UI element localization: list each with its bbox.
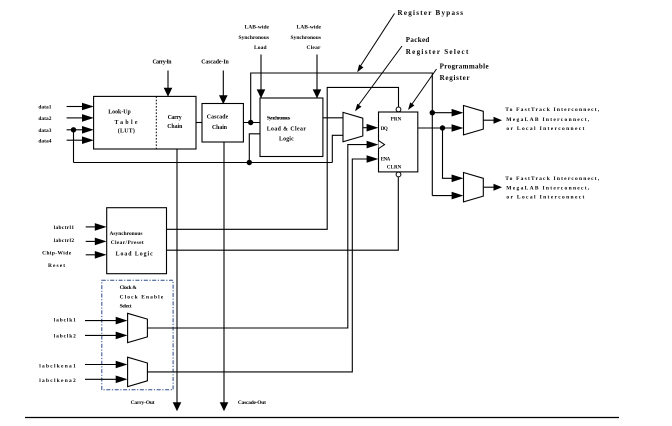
wire LAB-wide synchronous clear <box>316 55 318 92</box>
wire mux2 output <box>483 186 494 188</box>
arrow mux2 output <box>494 184 503 191</box>
svg-text:Chain: Chain <box>167 124 183 130</box>
arrow labclkena2 <box>116 376 128 384</box>
arrow labclk2 <box>116 332 128 340</box>
pointer register bypass <box>360 14 395 68</box>
arrow data2 <box>82 114 94 122</box>
svg-text:data1: data1 <box>38 105 51 111</box>
svg-text:data3: data3 <box>38 128 51 134</box>
svg-text:Clock Enable: Clock Enable <box>120 295 165 301</box>
svg-text:Carry-In: Carry-In <box>153 60 173 66</box>
wire async to PRN <box>167 87 399 229</box>
svg-text:PRN: PRN <box>391 118 402 123</box>
svg-text:Clear/Preset: Clear/Preset <box>111 240 144 246</box>
CLRN bubble <box>396 172 401 177</box>
svg-text:Carry: Carry <box>168 115 182 121</box>
arrow carry-out <box>173 402 182 411</box>
wire chip-wide reset <box>86 254 96 256</box>
wire labctrl2 <box>86 240 96 242</box>
svg-text:MegaLAB Interconnect,: MegaLAB Interconnect, <box>506 185 590 191</box>
wire packed mux to D <box>363 127 367 129</box>
wire bypass to mux2 <box>432 195 452 197</box>
svg-text:Clear: Clear <box>307 45 322 51</box>
wire carry-in <box>167 71 169 91</box>
wire LUT to cascade <box>196 122 202 124</box>
svg-text:Carry-Out: Carry-Out <box>131 400 155 406</box>
block Cascade Chain <box>202 104 243 143</box>
arrow cascade-out <box>220 402 229 411</box>
block Synchronous Load and Clear Logic <box>260 98 323 157</box>
pointer programmable register <box>411 69 437 106</box>
wire labclk1 <box>85 320 116 322</box>
svg-text:or Local Interconnect: or Local Interconnect <box>506 126 584 132</box>
svg-text:ENA: ENA <box>381 158 391 163</box>
clock wedge <box>379 141 385 149</box>
svg-text:LAB-wide: LAB-wide <box>297 25 322 31</box>
node register bypass tap <box>248 120 253 125</box>
wire cascade to sync <box>243 122 260 124</box>
wire data1 <box>67 106 83 108</box>
svg-text:Reset: Reset <box>48 263 65 269</box>
wire data4 <box>67 139 83 141</box>
arrow data4 <box>82 136 94 144</box>
wire labclkena1 <box>85 364 116 366</box>
node feedback to sync <box>247 160 252 165</box>
wire async to CLRN <box>167 177 399 250</box>
node data3 feedback <box>71 127 76 132</box>
arrow chip-wide reset <box>95 251 107 259</box>
arrow labclk1 <box>116 317 128 325</box>
block Clock and Clock Enable Select (dashed) <box>102 280 173 390</box>
arrow carry-in <box>164 88 173 97</box>
wire data2 <box>67 117 83 119</box>
svg-text:Load: Load <box>254 45 267 51</box>
svg-text:CLRN: CLRN <box>387 165 402 170</box>
svg-text:labctrl2: labctrl2 <box>54 238 75 244</box>
arrow into mux1 lower <box>452 124 464 132</box>
svg-text:data2: data2 <box>38 116 51 122</box>
mux clock enable select <box>128 357 148 386</box>
svg-text:Load Logic: Load Logic <box>116 252 154 258</box>
arrow cascade-in <box>219 95 228 104</box>
wire carry-out <box>176 149 178 404</box>
wire clock select to register clock <box>147 145 367 328</box>
svg-text:labclk1: labclk1 <box>54 318 76 324</box>
wire feedback horizontal <box>74 162 333 164</box>
svg-text:(LUT): (LUT) <box>118 127 135 134</box>
wire LAB-wide synchronous load <box>260 55 262 92</box>
mux clock select <box>128 313 148 342</box>
svg-text:Clock &: Clock & <box>120 285 138 291</box>
arrow labclkena1 <box>116 361 128 369</box>
svg-text:Select: Select <box>120 304 132 310</box>
svg-text:DQ: DQ <box>381 127 388 132</box>
svg-text:Cascade: Cascade <box>207 114 229 120</box>
wire feedback to packed mux <box>332 135 343 162</box>
arrow into ENA <box>367 155 379 163</box>
svg-text:data4: data4 <box>38 138 51 144</box>
svg-text:labctrl1: labctrl1 <box>54 225 75 231</box>
svg-text:Table: Table <box>115 120 139 126</box>
arrow labctrl1 <box>95 223 107 231</box>
arrow LAB-wide synchronous clear <box>313 89 322 98</box>
mux output1 <box>464 106 484 135</box>
arrow mux1 output <box>494 117 503 124</box>
pointer packed register select <box>358 46 403 107</box>
PRN bubble <box>396 107 401 112</box>
wire register bypass <box>251 73 433 196</box>
svg-text:MegaLAB Interconnect,: MegaLAB Interconnect, <box>506 117 590 123</box>
bottom rule <box>25 417 619 419</box>
wire labclkena2 <box>85 378 116 380</box>
arrow into mux2 upper <box>452 175 464 183</box>
svg-text:Cascade-Out: Cascade-Out <box>238 400 266 406</box>
svg-text:Load & Clear: Load & Clear <box>267 127 307 133</box>
svg-text:Chip-Wide: Chip-Wide <box>42 251 72 257</box>
block Look-Up Table / Carry Chain <box>94 96 196 149</box>
svg-text:Asynchronous: Asynchronous <box>110 231 143 237</box>
wire mux1 output <box>483 119 494 121</box>
mux output2 <box>464 173 484 202</box>
block programmable register (DFF) <box>379 107 418 177</box>
svg-text:Register Select: Register Select <box>406 48 469 56</box>
arrow labctrl2 <box>95 238 107 246</box>
wire bypass to mux1 <box>432 112 452 114</box>
wire labclk2 <box>85 334 116 336</box>
svg-text:Register: Register <box>440 74 470 82</box>
arrow into mux2 lower <box>452 192 464 200</box>
svg-text:Synchronous: Synchronous <box>291 35 322 41</box>
svg-text:or Local Interconnect: or Local Interconnect <box>506 195 584 201</box>
svg-text:Chain: Chain <box>212 125 228 131</box>
arrow into clock <box>367 141 379 149</box>
svg-text:Logic: Logic <box>279 137 295 143</box>
svg-text:Packed: Packed <box>406 36 430 44</box>
mux packed-register-select <box>343 112 363 141</box>
wire feedback into sync box <box>249 134 260 163</box>
svg-text:labclk2: labclk2 <box>54 333 76 339</box>
arrow data3 <box>82 126 94 134</box>
arrow data1 <box>82 103 94 111</box>
wire sync out to packed mux <box>323 117 343 119</box>
wire cascade-in <box>222 71 224 98</box>
arrow into mux1 upper <box>452 109 464 117</box>
node Q <box>440 125 445 130</box>
svg-text:Register Bypass: Register Bypass <box>398 9 464 17</box>
wire Q to mux2 <box>443 128 453 178</box>
svg-text:Synchronous: Synchronous <box>239 35 270 41</box>
wire Q output <box>418 127 452 129</box>
arrow into D <box>367 124 379 132</box>
arrow LAB-wide synchronous load <box>257 89 266 98</box>
wire clock enable to ENA <box>147 159 367 372</box>
wire data3 feedback down <box>73 130 75 163</box>
svg-text:Programmable: Programmable <box>440 62 489 70</box>
svg-text:Synchronous: Synchronous <box>267 116 291 122</box>
block Asynchronous Clear/Preset Load Logic <box>107 208 167 274</box>
wire labctrl1 <box>86 226 96 228</box>
node bypass to mux1 <box>430 110 435 115</box>
wire cascade-out <box>223 142 225 404</box>
svg-text:Cascade-In: Cascade-In <box>201 60 229 66</box>
svg-text:Look-Up: Look-Up <box>108 109 131 115</box>
svg-text:LAB-wide: LAB-wide <box>245 25 270 31</box>
wire data3 <box>67 129 83 131</box>
